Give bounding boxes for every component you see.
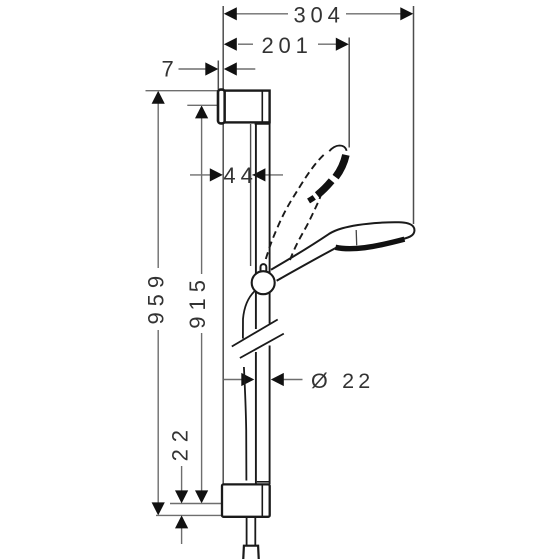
dashed position head tip (solid hook) — [329, 146, 346, 152]
svg-text:44: 44 — [223, 163, 257, 188]
wall bar (right edge) — [269, 124, 271, 324]
svg-text:201: 201 — [262, 33, 313, 58]
extension line shower pivot (201) — [348, 38, 350, 148]
svg-text:915: 915 — [185, 274, 210, 329]
dimension diameter 22 — [224, 369, 375, 393]
extension line 44 (hose reference) — [250, 124, 252, 266]
dashed position spray face (solid thick segments) — [309, 155, 346, 201]
svg-text:Ø 22: Ø 22 — [311, 369, 374, 393]
pipe break symbol — [232, 320, 278, 347]
dimension 7 — [162, 57, 256, 82]
wall bar top cap — [255, 123, 271, 125]
dimension 22 vertical (bottom) — [167, 423, 192, 544]
dimension 959 vertical — [143, 91, 221, 516]
svg-text:22: 22 — [167, 423, 192, 461]
dimension 915 vertical — [170, 105, 222, 503]
hand shower spray face (thick) — [336, 239, 405, 248]
dimension 201 — [224, 33, 349, 58]
hand shower handle bottom contour — [277, 247, 338, 281]
wall extension line — [222, 6, 224, 484]
slider release button (nub) — [261, 264, 267, 273]
tick on head — [355, 230, 358, 245]
extension line 7 — [217, 61, 219, 90]
dimension 304 — [224, 3, 413, 28]
svg-text:959: 959 — [143, 270, 168, 325]
shower hose below bracket — [246, 517, 248, 545]
slider knob — [252, 271, 275, 294]
top wall bracket plate — [218, 90, 225, 124]
bottom bracket inner line — [261, 484, 263, 516]
svg-text:304: 304 — [294, 3, 345, 28]
dashed hand shower (pivoted position) outline — [266, 153, 326, 260]
bottom wall bracket body — [222, 484, 270, 516]
hand shower handle and head (solid, top contour) — [271, 222, 414, 269]
shower hose upper part — [243, 291, 255, 339]
dimension 44 — [190, 163, 283, 188]
extension line right of head (304) — [413, 6, 415, 224]
svg-text:7: 7 — [162, 57, 174, 82]
wall bar (left edge) — [255, 124, 257, 329]
top wall bracket body — [225, 91, 270, 123]
hose conical nut — [243, 546, 259, 559]
wall bar bottom cap — [257, 481, 270, 483]
top bracket inner line — [261, 91, 263, 123]
